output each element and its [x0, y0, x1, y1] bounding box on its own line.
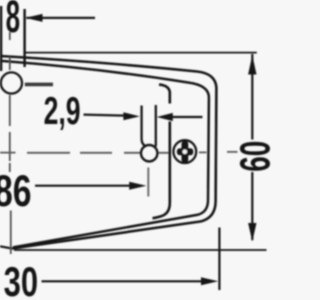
dim 60 bottom extension line	[14, 249, 267, 251]
pin centerline extension (gray)	[147, 168, 149, 197]
dim 60 down arrowhead	[248, 223, 256, 242]
svg-text:2,9: 2,9	[44, 90, 81, 133]
center pin ball	[141, 145, 157, 161]
screw cross vertical bar	[182, 141, 189, 163]
dim 8 right extension line	[23, 9, 26, 67]
lamp outer contour left bottom stub	[0, 246, 12, 248]
svg-text:86: 86	[0, 167, 32, 216]
cable stub line	[25, 83, 53, 87]
dim 86 arrowhead	[129, 182, 146, 190]
dim 2,9 right arrowhead (points right)	[123, 112, 139, 120]
dim 60 top extension line	[25, 52, 257, 54]
dim 2,9 right arrow line	[171, 116, 203, 118]
dim 8 left extension line	[0, 6, 2, 71]
dim 30 dimension line	[42, 280, 204, 282]
horizontal centerline	[0, 151, 238, 154]
dim 8 arrowhead	[25, 14, 42, 22]
screw U head outer circle	[173, 140, 196, 163]
lens divider line (upper segment with hook)	[159, 85, 170, 104]
vertical centerline through grommet	[10, 32, 11, 254]
grommet circle top-left	[1, 72, 22, 93]
dim 2,9 left arrowhead (points left)	[157, 113, 173, 121]
svg-text:60: 60	[232, 141, 280, 172]
svg-text:30: 30	[4, 258, 39, 300]
lamp inner lens contour	[0, 61, 209, 248]
center pin left edge	[142, 106, 147, 147]
screw center white dot	[183, 150, 188, 155]
svg-text:8: 8	[6, 0, 21, 42]
dim 60 up arrowhead	[248, 55, 256, 75]
dim 8 arrow line	[27, 17, 96, 19]
center pin right edge	[155, 105, 157, 147]
lamp outer contour	[0, 56, 216, 249]
dim 2,9 left arrow line	[84, 115, 126, 116]
dim 30 arrowhead	[201, 277, 218, 285]
dim 30 right extension line	[218, 228, 220, 291]
screw cross horizontal bar	[177, 148, 193, 155]
dim 86 dimension line	[35, 185, 131, 187]
dim 60 vertical dimension line	[251, 54, 253, 240]
lens divider line (lower segment with bottom hook)	[153, 122, 170, 219]
